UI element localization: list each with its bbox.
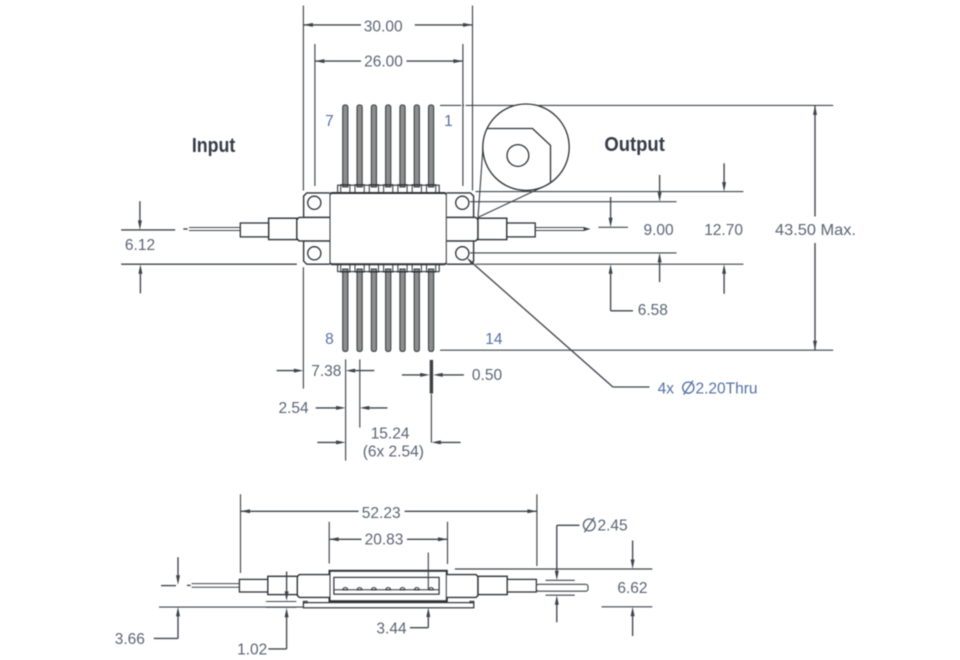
right weld sleeve (478, 218, 507, 239)
dim 15.24 (6x 2.54) (317, 441, 336, 443)
mounting hole bottom-right (456, 247, 469, 260)
svg-text:2.54: 2.54 (279, 400, 310, 417)
dim 6.62 reference lines (455, 568, 653, 570)
leader 4x dia 2.20 Thru (467, 258, 475, 266)
svg-text:Output: Output (604, 134, 665, 156)
svg-text:30.00: 30.00 (364, 18, 403, 35)
dim 7.38 (277, 370, 295, 372)
pin 8 extension line (345, 359, 347, 460)
right reference line body top (476, 191, 744, 193)
svg-text:43.50 Max.: 43.50 Max. (775, 222, 856, 239)
right reference line body bottom (476, 263, 744, 265)
side right cord (536, 584, 588, 591)
svg-text:6.62: 6.62 (617, 580, 647, 597)
dim 3.44 extension line (427, 553, 429, 590)
dim 1.02 ticks (266, 601, 296, 603)
svg-text:2.45: 2.45 (598, 518, 628, 535)
right flange top (447, 193, 474, 218)
svg-text:12.70: 12.70 (704, 222, 743, 239)
dim 26.00 (315, 60, 361, 62)
dim 9.00 arrows (659, 175, 661, 194)
pin-tip reference line top (440, 104, 461, 106)
left fiber tip dash (183, 228, 187, 230)
svg-text:15.24: 15.24 (371, 425, 410, 442)
pin 2 extension line (359, 359, 361, 427)
dim 0.50 (402, 374, 421, 376)
detail fiber bore circle (507, 145, 529, 167)
pin seal rail bottom (338, 264, 440, 271)
svg-text:1: 1 (444, 113, 453, 130)
side right weld sleeve (478, 576, 507, 594)
left flange bottom (304, 241, 330, 264)
mounting hole top-left (308, 196, 321, 209)
dim 12.70 arrows (723, 163, 725, 184)
pin seal rail top (338, 185, 440, 193)
right flange bottom (447, 241, 474, 264)
baseplate right lip (470, 601, 474, 603)
svg-text:2.20Thru: 2.20Thru (696, 380, 758, 397)
dim 30.00 (303, 24, 361, 26)
side right boot (507, 579, 536, 592)
dim 6.12 reference lines (121, 229, 175, 231)
svg-text:6.58: 6.58 (638, 302, 668, 319)
left flange top (304, 193, 330, 218)
left fiber (189, 227, 240, 229)
svg-text:7.38: 7.38 (311, 363, 341, 380)
svg-text:26.00: 26.00 (364, 54, 403, 71)
bottom pins 8..14 (343, 269, 348, 352)
svg-text:8: 8 (325, 331, 334, 348)
svg-text:14: 14 (485, 331, 503, 348)
fiber axis tick (598, 226, 628, 228)
dim 1.02 arrows (286, 572, 288, 594)
mounting hole top-right (456, 196, 469, 209)
top view: dim 30.00 extension lines (302, 6, 304, 191)
dim 20.83 (329, 538, 361, 540)
dim 6.12 arrows (139, 201, 141, 222)
side left snout (297, 575, 329, 598)
dim 3.66 leader (161, 585, 176, 587)
top pins 7..1 (343, 105, 348, 187)
svg-text:6.12: 6.12 (125, 237, 155, 254)
side view body (330, 571, 447, 601)
svg-text:3.44: 3.44 (376, 621, 407, 638)
side left fiber tip dash (187, 584, 191, 586)
baseplate (303, 603, 473, 608)
right boot (507, 223, 535, 237)
dim 3.44 arrow (427, 615, 429, 628)
detail snout corner profile (487, 129, 551, 183)
dim 26.00 extension lines (314, 44, 316, 186)
svg-text:9.00: 9.00 (644, 222, 675, 239)
dim 6.62 arrows (632, 541, 634, 562)
right reference line hole top (470, 201, 677, 203)
side view pin bumps (343, 588, 348, 590)
svg-text:1.02: 1.02 (237, 642, 267, 659)
dim dia 2.45 text (583, 518, 595, 533)
right snout (447, 217, 478, 241)
detail circle (483, 104, 569, 190)
svg-text:3.66: 3.66 (115, 631, 145, 648)
left weld sleeve (269, 218, 297, 239)
svg-text:4x: 4x (658, 380, 675, 397)
svg-text:20.83: 20.83 (365, 532, 404, 549)
right reference line hole bottom (470, 252, 677, 254)
dim 52.23 extension lines (240, 494, 242, 573)
side right snout (447, 575, 478, 598)
package body (top view) (330, 193, 447, 264)
side left boot (239, 579, 267, 592)
svg-text:52.23: 52.23 (362, 505, 401, 522)
mounting hole bottom-left (308, 247, 321, 260)
right fiber (535, 227, 583, 229)
svg-text:(6x 2.54): (6x 2.54) (363, 444, 424, 461)
dim 2.54 (316, 407, 337, 409)
pin-tip reference line bottom (440, 349, 833, 351)
dim 43.50 Max line (814, 105, 816, 216)
svg-text:7: 7 (325, 113, 334, 130)
dim 20.83 extension lines (328, 522, 330, 564)
pin 14 extension line with 0.50 width mark (430, 360, 433, 394)
side view floor line (334, 589, 439, 591)
left boot (240, 223, 268, 237)
svg-text:Input: Input (192, 135, 236, 157)
dim dia 2.45 leader (556, 525, 558, 572)
side left fiber (192, 583, 240, 585)
side left weld sleeve (268, 576, 298, 594)
right fiber tip (584, 227, 591, 231)
baseplate left lip (303, 601, 307, 603)
left snout (297, 217, 330, 241)
side view lid cavity (334, 577, 439, 594)
dim 6.58 leader (610, 197, 612, 220)
dia 2.45 reference ticks (546, 579, 575, 581)
dim 52.23 (241, 510, 359, 512)
svg-text:0.50: 0.50 (472, 367, 503, 384)
detail leader cone (478, 144, 483, 217)
